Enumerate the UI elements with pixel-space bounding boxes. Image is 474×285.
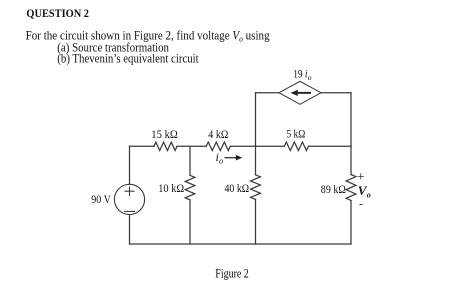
svg-text:89 kΩ: 89 kΩ [321, 182, 346, 196]
svg-text:+: + [357, 169, 365, 184]
svg-text:Figure 2: Figure 2 [215, 266, 249, 280]
resistor R2 4k [206, 142, 230, 150]
resistor R1 15k [154, 142, 177, 150]
svg-text:10 kΩ: 10 kΩ [158, 181, 184, 195]
wire dependent source left lead [256, 92, 280, 94]
wire bottom rail [130, 243, 352, 245]
wire R6 to bottom rail [350, 201, 352, 245]
voltage source V1 90V [114, 184, 144, 214]
arrow inside dependent source (points left) [291, 90, 312, 96]
svg-text:90 V: 90 V [91, 192, 111, 206]
wire top rail: node A to R1 [130, 145, 155, 147]
wire node C up to dependent source branch [255, 93, 257, 147]
svg-text:o: o [367, 191, 371, 200]
wire node D down to R6 [350, 146, 352, 174]
svg-text:15 kΩ: 15 kΩ [151, 127, 178, 141]
wire dependent source right lead [321, 92, 351, 94]
svg-text:(b) Thevenin’s equivalent cir: (b) Thevenin’s equivalent circuit [57, 52, 199, 66]
svg-text:19 i: 19 i [293, 67, 307, 81]
svg-text:o: o [308, 73, 312, 82]
wire left vertical bottom (source to bottom rail) [129, 215, 131, 244]
svg-text:4 kΩ: 4 kΩ [208, 127, 228, 141]
resistor R4 10k [185, 175, 195, 200]
wire R4 to bottom rail [189, 200, 191, 244]
wire top rail: R3 to node D [309, 145, 352, 147]
wire R5 to bottom rail [255, 199, 257, 244]
current arrow io (points right) [225, 155, 243, 161]
wire right vertical: dependent source down to node D [350, 93, 352, 147]
svg-text:5 kΩ: 5 kΩ [286, 127, 305, 141]
wire top rail: R2 to node C and node C to R3 [230, 145, 284, 147]
wire top rail: R1 to node B and node B to R2 [177, 145, 206, 147]
wire node C down to R5 [255, 146, 257, 175]
svg-text:-: - [359, 197, 363, 211]
svg-text:40 kΩ: 40 kΩ [225, 181, 250, 195]
resistor R3 5k [284, 142, 308, 150]
wire node B down to R4 [189, 146, 191, 175]
svg-text:o: o [219, 156, 223, 166]
resistor R5 40k [251, 175, 261, 200]
svg-text:QUESTION 2: QUESTION 2 [26, 6, 89, 20]
resistor R6 89k [346, 175, 356, 201]
dependent current source D1 19io (diamond) [279, 81, 321, 104]
wire left vertical top (node A down to source) [129, 146, 131, 184]
